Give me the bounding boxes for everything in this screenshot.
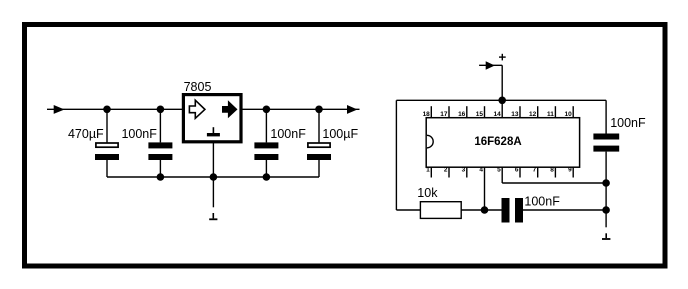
wire: pin4 lead: [484, 167, 486, 210]
svg-text:2: 2: [444, 167, 448, 174]
pin 14 stub: [501, 100, 503, 117]
wire: supply drop to rail: [501, 65, 503, 100]
node: C1 top junction: [103, 106, 111, 114]
wire: C4 top lead: [318, 109, 320, 142]
svg-text:18: 18: [423, 111, 431, 118]
pin 18 stub: [430, 106, 432, 118]
ground (left): [209, 213, 217, 220]
wire: 7805 ground lead: [212, 142, 214, 177]
svg-text:16F628A: 16F628A: [474, 136, 521, 148]
wire: right rail upper: [605, 100, 607, 133]
capacitor C1 470µF: [95, 143, 119, 160]
svg-text:16: 16: [458, 111, 466, 118]
svg-text:100nF: 100nF: [610, 116, 646, 130]
wire: C3 top lead: [265, 109, 267, 142]
svg-text:17: 17: [440, 111, 448, 118]
input arrow: [54, 105, 65, 114]
node: pin5/right rail junction: [602, 179, 610, 187]
node: 7805 ground junction: [210, 173, 218, 181]
capacitor C7 100nF (bottom): [502, 198, 524, 223]
wire: Vdd rail: [396, 99, 606, 101]
wire: right rail lower: [605, 152, 607, 228]
node: C4 top junction: [315, 106, 323, 114]
svg-text:13: 13: [511, 111, 519, 118]
svg-text:10k: 10k: [417, 186, 438, 200]
ground (right): [602, 233, 610, 240]
pin 7 stub: [537, 167, 539, 177]
wire: input rail (left): [47, 108, 184, 110]
node: C3 top junction: [263, 106, 271, 114]
regulator U1 7805: [183, 95, 241, 142]
svg-text:15: 15: [476, 111, 484, 118]
svg-text:10: 10: [564, 111, 572, 118]
node: right rail lower junction: [602, 206, 610, 214]
resistor R1 10k: [420, 202, 461, 219]
svg-text:9: 9: [568, 167, 572, 174]
node: R1/C7/pin4 junction: [481, 206, 489, 214]
wire: left loop down: [395, 100, 397, 210]
IC U2 16F628A: [423, 100, 580, 183]
wire: output rail (left circuit): [241, 108, 360, 110]
svg-text:12: 12: [529, 111, 537, 118]
pin 2 stub: [448, 167, 450, 177]
pin 16 stub: [466, 106, 468, 118]
wire: C1 top lead: [106, 109, 108, 142]
svg-text:100nF: 100nF: [270, 127, 306, 141]
svg-text:11: 11: [547, 111, 554, 118]
node: C3 ground junction: [263, 173, 271, 181]
output arrow: [347, 105, 357, 114]
pin 5 stub: [501, 167, 503, 183]
svg-text:14: 14: [493, 111, 501, 118]
svg-text:4: 4: [479, 167, 483, 174]
pin 3 stub: [466, 167, 468, 177]
wire: pin5 route to right rail: [502, 182, 606, 184]
wire: C3 bottom lead: [265, 160, 267, 177]
pin 15 stub: [484, 106, 486, 118]
svg-text:100nF: 100nF: [524, 194, 560, 208]
wire: C4 bottom lead: [318, 160, 320, 177]
svg-text:1: 1: [426, 167, 430, 174]
pin 1 stub: [430, 167, 432, 177]
wire: C2 top lead: [159, 109, 161, 142]
node: pin14 junction: [498, 97, 506, 105]
pin 10 stub: [572, 106, 574, 118]
wire: C1 bottom lead: [106, 160, 108, 177]
svg-text:100µF: 100µF: [322, 127, 358, 141]
svg-text:6: 6: [515, 167, 519, 174]
wire: left loop across: [396, 209, 420, 211]
svg-text:7: 7: [533, 167, 537, 174]
node: C2 top junction: [157, 106, 165, 114]
label: + supply: [499, 54, 506, 61]
capacitor C3 100nF: [254, 142, 278, 160]
pin 9 stub: [572, 167, 574, 177]
svg-text:5: 5: [497, 167, 501, 174]
svg-text:470µF: 470µF: [68, 127, 104, 141]
pin 11 stub: [554, 106, 556, 118]
wire: ground stub (left): [212, 177, 214, 207]
wire: supply feed: [479, 64, 502, 66]
pin 13 stub: [519, 106, 521, 118]
pin 17 stub: [448, 106, 450, 118]
wire: C7 to right rail: [523, 209, 606, 211]
pin 12 stub: [537, 106, 539, 118]
pin 8 stub: [554, 167, 556, 177]
pin 6 stub: [519, 167, 521, 177]
wire: C2 bottom lead: [159, 160, 161, 177]
svg-text:7805: 7805: [184, 80, 212, 94]
wire: R1 to node: [461, 209, 501, 211]
capacitor C2 100nF: [148, 142, 172, 160]
supply arrow: [486, 61, 495, 70]
svg-text:8: 8: [550, 167, 554, 174]
wire: left ground rail: [107, 176, 319, 178]
capacitor C4 100µF: [307, 143, 331, 160]
svg-text:100nF: 100nF: [121, 127, 157, 141]
capacitor C6 100nF (right): [593, 134, 619, 152]
node: C2 ground junction: [157, 173, 165, 181]
svg-text:3: 3: [462, 167, 466, 174]
